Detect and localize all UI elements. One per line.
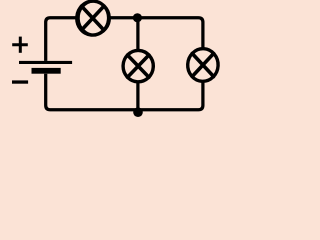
lamp L1 (75, 0, 110, 36)
node: top junction dot (133, 13, 142, 22)
label: minus sign (12, 80, 28, 83)
node: bottom junction dot (133, 107, 143, 117)
wire: outer loop (left side broken by battery B1) (46, 18, 203, 110)
wire: middle branch (136, 18, 139, 112)
lamp L3 (187, 48, 219, 82)
lamp L2 (122, 50, 154, 83)
battery B1 positive plate (19, 61, 72, 64)
label: plus sign (12, 37, 28, 53)
battery B1 negative plate (32, 68, 61, 74)
